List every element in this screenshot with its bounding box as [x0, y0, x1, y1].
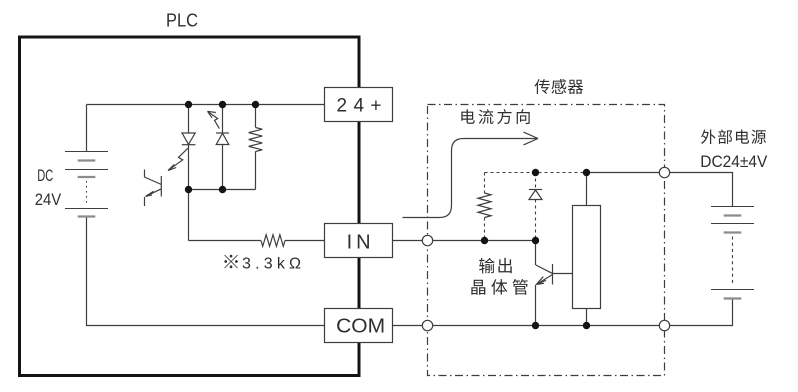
svg-text:3.3kΩ: 3.3kΩ [242, 256, 301, 273]
svg-text:COM: COM [336, 316, 385, 338]
svg-text:DC: DC [37, 166, 53, 185]
svg-text:DC24±4V: DC24±4V [700, 152, 768, 171]
svg-text:I N: I N [347, 232, 371, 254]
svg-text:PLC: PLC [166, 11, 198, 31]
svg-text:24+: 24+ [337, 96, 382, 117]
svg-text:24V: 24V [35, 190, 62, 209]
